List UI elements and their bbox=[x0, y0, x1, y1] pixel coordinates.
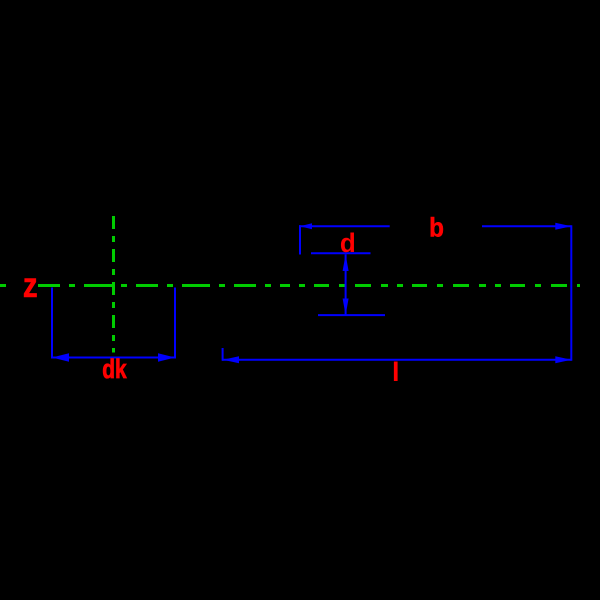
arrowhead l right bbox=[555, 356, 571, 363]
horizontal centerline (right part) bbox=[299, 284, 580, 287]
dimension line b (right part) bbox=[482, 225, 571, 227]
extension line dk left bbox=[51, 288, 53, 359]
dimension line d vertical bbox=[345, 254, 347, 315]
horizontal centerline (left stub) bbox=[0, 284, 6, 287]
arrowhead l left bbox=[223, 356, 239, 363]
arrowhead d down bbox=[343, 299, 349, 316]
arrowhead b right bbox=[555, 223, 571, 230]
extension line b left corner bbox=[299, 225, 301, 254]
dimension line l bbox=[222, 359, 571, 361]
svg-text:d: d bbox=[340, 228, 356, 258]
extension line dk right bbox=[174, 288, 176, 359]
arrowhead b left bbox=[300, 223, 312, 229]
svg-text:z: z bbox=[23, 266, 38, 305]
dimension line dk bbox=[51, 357, 176, 359]
horizontal centerline bbox=[38, 284, 290, 287]
d top extension line bbox=[311, 252, 371, 254]
arrowhead d up bbox=[343, 255, 349, 272]
arrowhead dk left bbox=[52, 353, 69, 361]
shared right extension line bbox=[570, 225, 572, 361]
svg-text:b: b bbox=[429, 213, 444, 243]
svg-text:l: l bbox=[392, 357, 400, 387]
extension stub l left bbox=[222, 348, 224, 361]
dimension line b (left part) bbox=[299, 225, 390, 227]
d bottom extension line bbox=[318, 314, 385, 316]
vertical centerline bbox=[112, 216, 115, 353]
svg-text:dk: dk bbox=[102, 354, 127, 384]
arrowhead dk right bbox=[158, 353, 175, 361]
